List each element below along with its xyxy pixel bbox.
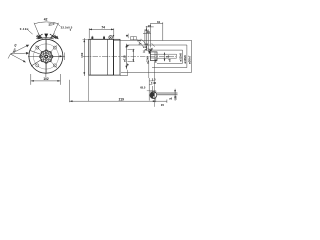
bolt hole centerline lower-right — [50, 60, 57, 68]
svg-text:ø19k6: ø19k6 — [183, 55, 187, 64]
extension line right of 42 — [54, 23, 59, 34]
left tab screw hatch — [36, 34, 42, 39]
small stud dot near terminal — [113, 35, 114, 36]
leader arrow onto shaft key — [150, 48, 153, 51]
wedge arrowhead upper — [26, 45, 29, 48]
vertical dimension 102 line left of body — [83, 38, 85, 76]
dimension 21 line — [143, 33, 151, 35]
dimension 15 line — [156, 100, 167, 102]
extension line fan 3 — [147, 29, 149, 51]
svg-text:31: 31 — [157, 20, 161, 24]
groove diameter bracket — [157, 53, 176, 55]
spoke down — [45, 62, 47, 73]
leader from 0.12 note — [28, 30, 33, 34]
leader lines in cluster — [141, 39, 146, 44]
section arrow top center — [44, 34, 48, 38]
dimension 102 extension left — [30, 74, 32, 85]
svg-text:102: 102 — [43, 77, 49, 81]
svg-text:ø12h6: ø12h6 — [147, 56, 150, 64]
extension line fan 4 — [150, 23, 152, 47]
wedge leader to lower-left rim — [10, 54, 24, 62]
middle diameter bracket dia 19 — [128, 44, 187, 46]
leader from M4 — [139, 42, 144, 47]
shaft key dark — [149, 51, 151, 54]
motor body rectangle (side view) — [89, 39, 114, 75]
flange bolt diamond above — [126, 35, 128, 37]
vertical centerline (front view) — [45, 34, 47, 78]
key section detail circle — [150, 92, 157, 99]
hub inner ring — [43, 53, 50, 60]
terminal boss circle — [109, 36, 112, 39]
horizontal centerline (side view) — [83, 55, 176, 57]
rear endbell joint line — [89, 39, 91, 75]
wedge arrowhead lower — [26, 52, 29, 55]
dimension 102 extension right — [59, 74, 61, 85]
horizontal centerline (front view) — [28, 55, 65, 57]
bolt hole lower-right — [53, 64, 56, 67]
outer diameter bracket dia 30 — [114, 40, 192, 42]
dimension arc 42 — [35, 22, 59, 24]
shaft tip block — [150, 52, 157, 61]
extension line below body rear — [88, 75, 90, 101]
leader lines from section — [157, 92, 178, 94]
spoke down-left — [31, 59, 42, 66]
svg-text:ø115: ø115 — [123, 55, 127, 62]
radius leader with arrow to right edge — [51, 55, 62, 57]
svg-text:2.5: 2.5 — [174, 96, 177, 100]
dimension 74 extension right — [113, 28, 115, 38]
svg-text:0.12ø: 0.12ø — [20, 27, 29, 31]
bolt hole upper-left — [36, 46, 39, 49]
right tab screw hatch — [50, 34, 56, 39]
dimension 74 extension left — [88, 28, 90, 38]
dimension 219 line — [70, 100, 156, 102]
flange bottom step — [120, 75, 128, 77]
mounting tab band top — [38, 38, 54, 39]
svg-text:102: 102 — [80, 52, 84, 57]
svg-text:26: 26 — [148, 24, 152, 28]
body interior joint line — [107, 39, 109, 75]
hub small holes — [39, 50, 53, 64]
bolt hole centerline upper-right — [50, 45, 57, 53]
dimension line dia 115 — [125, 44, 127, 70]
extension vertical short — [151, 86, 153, 92]
flange bolt symbol lower — [127, 63, 129, 66]
short dimension lines below shaft — [149, 80, 153, 82]
small vertical dimension dia 8 — [164, 52, 166, 61]
dimension 219 extension right — [155, 97, 157, 103]
key section top cap — [151, 91, 156, 93]
angle dimension wedge left leg lower — [10, 53, 28, 54]
dimension 102 line — [31, 80, 61, 82]
svg-text:219: 219 — [119, 98, 125, 102]
bolt circle (front view) — [33, 44, 58, 69]
wedge tail — [8, 54, 10, 59]
dimension 219 extension left — [69, 80, 71, 102]
section detail centerline — [154, 62, 156, 107]
inner diameter bracket dia 12 — [151, 49, 183, 51]
extension line fan 1 — [144, 29, 146, 45]
svg-text:22.5±0.5: 22.5±0.5 — [61, 25, 73, 29]
extension line below shaft — [148, 61, 150, 78]
bolt hole lower-left — [36, 64, 39, 67]
flange bolt symbol upper — [127, 45, 129, 48]
through bolt left — [91, 37, 93, 39]
extension vertical from shaft — [148, 78, 150, 101]
angle dimension wedge left leg upper — [10, 45, 27, 54]
svg-text:ø12h6: ø12h6 — [178, 53, 182, 62]
svg-text:15: 15 — [161, 103, 165, 107]
dimension 31 line — [150, 23, 162, 25]
svg-text:74: 74 — [101, 26, 105, 30]
dimension 26 line — [146, 26, 154, 28]
dimension 74 line — [89, 28, 114, 30]
small vertical dimension 2.5 — [174, 89, 176, 101]
svg-text:ø30h7: ø30h7 — [188, 55, 192, 64]
dimension 4 line — [145, 30, 148, 32]
spoke up-left — [29, 50, 41, 54]
extension line left of 42 — [34, 23, 39, 34]
leader to tolerance note right — [58, 24, 61, 27]
hub outer circle — [40, 51, 52, 63]
motor body outline circle (front view) — [29, 39, 63, 73]
vertical dimension at boss — [132, 49, 134, 62]
svg-text:42: 42 — [44, 18, 48, 22]
svg-text:65.5: 65.5 — [140, 86, 146, 90]
spoke up — [45, 40, 47, 52]
dimension 31 extension right — [162, 22, 164, 40]
bolt hole upper-right — [53, 46, 56, 49]
extension line fan 2 — [145, 26, 147, 51]
svg-text:ø12h6: ø12h6 — [145, 48, 153, 51]
front flange rectangle — [114, 39, 121, 75]
through bolt right — [103, 37, 105, 39]
bolt hole centerline upper-left — [36, 45, 43, 53]
hub bore — [44, 55, 48, 59]
tolerance frame box — [131, 37, 137, 40]
